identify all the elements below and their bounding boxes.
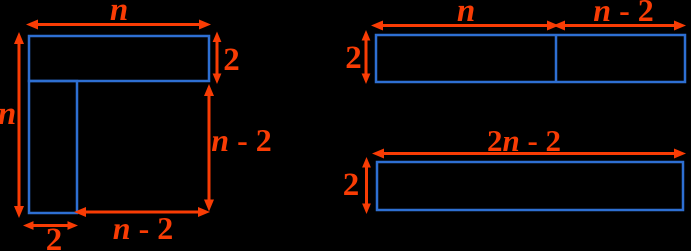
svg-text:n - 2: n - 2: [593, 0, 653, 28]
svg-text:2n - 2: 2n - 2: [487, 123, 561, 158]
svg-text:2: 2: [223, 42, 240, 78]
svg-text:n: n: [110, 0, 128, 28]
svg-text:2: 2: [345, 40, 362, 76]
svg-text:2: 2: [343, 167, 360, 203]
svg-text:n: n: [0, 96, 16, 132]
svg-text:n - 2: n - 2: [211, 122, 271, 158]
svg-text:n - 2: n - 2: [113, 210, 173, 246]
svg-text:n: n: [457, 0, 475, 29]
svg-text:2: 2: [46, 222, 63, 251]
